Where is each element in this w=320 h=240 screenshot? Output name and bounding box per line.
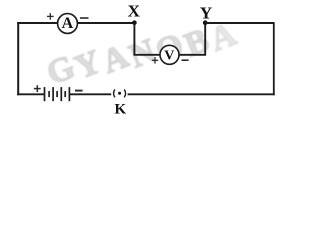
ammeter plus label [47,13,54,20]
wire: bottom right horizontal to key [128,93,275,95]
svg-text:Y: Y [200,3,212,22]
wire: battery to bottom-left corner [17,93,44,95]
wire: Y to top-right corner [205,22,274,24]
wire: top-left horizontal to ammeter [17,22,58,24]
voltmeter minus label [182,59,189,61]
wire: voltmeter to Y riser [179,54,205,56]
plug key K: dot [118,92,121,95]
wire: Y riser up [204,23,206,56]
wire: X riser down [133,23,135,55]
plug key K: right paren [124,90,125,98]
ammeter U1 circle [58,14,78,34]
battery BT1 plates [45,87,70,101]
battery plus label [34,85,41,92]
node Y dot [203,20,208,25]
plug key K: left paren [114,90,115,98]
voltmeter U2 circle [160,45,179,64]
wire: key to battery [69,93,111,95]
wire: left vertical [17,22,19,95]
voltmeter plus label [152,57,158,63]
wire: ammeter to node X [77,22,134,24]
ammeter minus label [80,17,89,19]
watermark GYANOBA [42,16,242,93]
node X dot [132,20,137,25]
battery minus label [75,90,83,92]
svg-text:X: X [128,2,141,21]
wire: X branch horizontal to voltmeter [134,54,161,56]
svg-text:A: A [62,15,74,32]
svg-text:K: K [114,101,126,117]
wire: right vertical [273,22,275,95]
svg-text:V: V [164,48,174,63]
